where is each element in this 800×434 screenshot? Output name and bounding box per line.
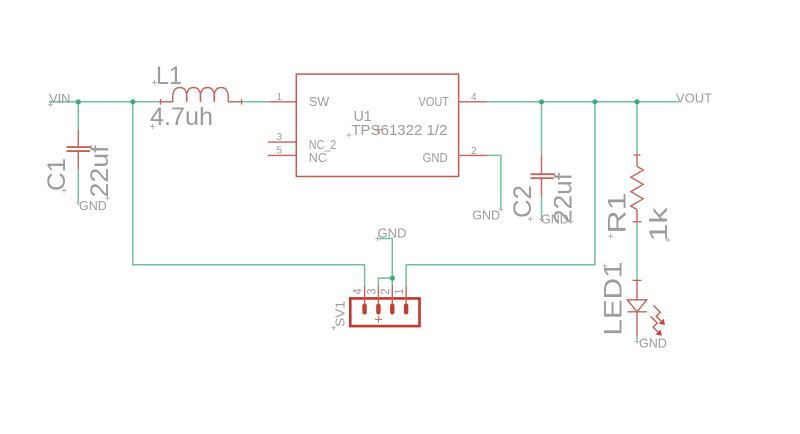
origin cross 22uf C1 — [105, 196, 110, 201]
svg-text:L1: L1 — [156, 62, 182, 90]
svg-text:22uf: 22uf — [550, 173, 578, 224]
svg-text:C1: C1 — [43, 158, 71, 191]
wire LED1 to GND — [636, 336, 638, 342]
U1 origin cross — [375, 126, 382, 133]
svg-text:GND: GND — [378, 227, 407, 241]
svg-text:VOUT: VOUT — [676, 91, 712, 106]
svg-text:GND: GND — [423, 151, 448, 165]
origin cross C2 — [528, 217, 533, 222]
svg-text:3: 3 — [366, 288, 378, 294]
svg-text:4: 4 — [353, 288, 365, 295]
svg-text:4: 4 — [471, 92, 477, 103]
svg-text:3: 3 — [276, 132, 282, 143]
wire junction to SV1 pin2 — [391, 278, 393, 286]
svg-text:LED1: LED1 — [600, 262, 628, 336]
connector SV1 box — [350, 298, 419, 326]
origin cross 4.7uh — [150, 124, 155, 129]
SV1 pin 1 — [404, 286, 408, 315]
svg-text:1k: 1k — [645, 207, 673, 242]
wire C2 top lead — [541, 102, 543, 155]
origin cross C1 — [62, 188, 67, 193]
origin cross 22uf C2 — [569, 219, 574, 224]
origin cross GND C2 — [539, 217, 544, 222]
SV1 pin 3 — [376, 286, 380, 315]
origin cross SV1 — [331, 325, 336, 330]
svg-text:SV1: SV1 — [334, 301, 348, 327]
node SV1 feed junction — [592, 99, 597, 104]
pin 1 SW stub — [270, 101, 297, 103]
wire U1 pin4 to VOUT — [487, 101, 679, 103]
SV1 origin cross — [375, 316, 382, 323]
origin cross U1 — [346, 133, 351, 138]
LED LED1 — [627, 280, 646, 335]
SV1 pin 2 — [390, 286, 394, 315]
origin cross R1 — [608, 234, 613, 239]
node C2 junction — [539, 99, 544, 104]
svg-text:TPS61322 1/2: TPS61322 1/2 — [351, 122, 447, 139]
wire L1 to U1 pin1 — [242, 101, 270, 103]
wire C1 bottom to GND — [77, 170, 79, 203]
pin 5 NC stub — [268, 154, 296, 156]
origin cross 1k — [666, 238, 671, 243]
svg-text:GND: GND — [639, 337, 667, 351]
SV1 pin 4 — [362, 286, 366, 315]
wire C1 top lead — [77, 102, 79, 130]
wire junction to SV1 pin3 — [378, 278, 392, 286]
node R1 junction — [634, 99, 639, 104]
svg-text:NC_2: NC_2 — [309, 138, 337, 152]
capacitor C1 — [67, 130, 90, 170]
svg-text:C2: C2 — [509, 185, 537, 218]
origin cross GND SV1 — [375, 236, 380, 241]
LED1 arrow 2 — [650, 316, 662, 336]
svg-text:GND: GND — [472, 209, 500, 223]
LED1 arrow 1 — [654, 305, 666, 325]
origin cross GND LED — [635, 339, 640, 344]
svg-text:22uf: 22uf — [86, 145, 114, 197]
svg-text:5: 5 — [276, 146, 282, 157]
wire C2 bottom to GND — [541, 196, 543, 219]
origin cross L1 — [152, 80, 157, 85]
origin cross GND C1 — [76, 201, 81, 206]
inductor L1 — [161, 88, 242, 105]
wire VIN to L1 — [49, 101, 161, 103]
svg-text:VIN: VIN — [49, 91, 71, 106]
wire R1 top lead — [636, 102, 638, 155]
wire VIN drop to SV1 pin4 — [133, 102, 365, 286]
svg-text:GND: GND — [79, 199, 107, 213]
origin cross VIN — [48, 102, 53, 107]
node left drop junction — [130, 99, 135, 104]
op-amp U1 box — [296, 74, 458, 176]
svg-text:VOUT: VOUT — [419, 95, 450, 109]
svg-text:1: 1 — [276, 92, 282, 103]
resistor R1 — [631, 155, 643, 222]
pin 3 NC_2 stub — [268, 141, 296, 143]
svg-text:2: 2 — [471, 146, 477, 157]
svg-text:R1: R1 — [604, 193, 632, 234]
svg-text:SW: SW — [309, 95, 329, 109]
wire U1 pin2 to GND — [487, 155, 501, 209]
capacitor C2 — [530, 155, 553, 197]
origin cross LED1 — [602, 264, 607, 269]
pin 2 GND stub — [459, 154, 487, 156]
wire VOUT drop to SV1 pin1 — [406, 102, 595, 286]
svg-text:4.7uh: 4.7uh — [150, 103, 213, 131]
wire R1 to LED1 — [636, 222, 638, 281]
svg-text:NC: NC — [309, 151, 327, 165]
origin cross GND U1pin2 — [498, 207, 503, 212]
node SV1 gnd junction — [390, 276, 395, 281]
svg-text:1: 1 — [394, 288, 406, 294]
node VIN junction — [76, 99, 81, 104]
wire GND into SV1 junction — [378, 239, 393, 279]
svg-text:2: 2 — [380, 288, 392, 294]
pin 4 VOUT stub — [459, 101, 487, 103]
